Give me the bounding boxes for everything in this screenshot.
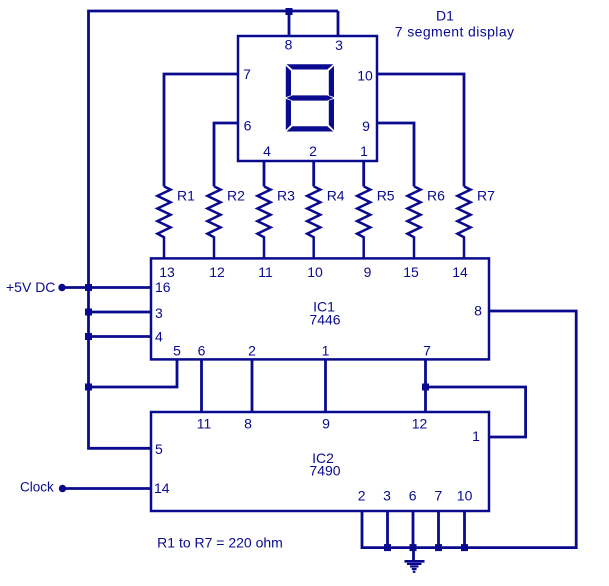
junction dot: rail / +5V wire: [85, 284, 92, 291]
svg-text:R1 to R7 = 220 ohm: R1 to R7 = 220 ohm: [157, 534, 283, 550]
wire: D1 pin 7 to R1 top: [164, 74, 238, 186]
svg-text:10: 10: [307, 264, 323, 280]
svg-text:R7: R7: [477, 188, 495, 204]
svg-text:14: 14: [154, 480, 170, 496]
resistor R2: [207, 186, 220, 258]
wire: IC1 pin 8 to ground bus (right side): [413, 311, 576, 548]
svg-text:13: 13: [159, 264, 175, 280]
svg-text:7490: 7490: [309, 463, 340, 479]
op IC1 7446 body: [151, 258, 489, 359]
svg-text:9: 9: [322, 415, 330, 431]
resistor R1: [157, 186, 170, 258]
svg-text:1: 1: [322, 342, 330, 358]
svg-text:1: 1: [360, 143, 368, 159]
wire: IC2 pin 7 to ground bus: [437, 511, 440, 548]
resistor R6: [407, 186, 420, 258]
svg-text:8: 8: [474, 302, 482, 318]
svg-text:R6: R6: [427, 188, 445, 204]
wire: drop from top rail to display pin 8: [288, 11, 291, 36]
svg-text:1: 1: [472, 428, 480, 444]
terminal dot: +5V DC: [58, 284, 65, 291]
svg-text:7446: 7446: [309, 312, 340, 328]
terminal dot: Clock: [59, 485, 66, 492]
wire: Clock to IC2 pin 14: [63, 487, 152, 490]
wire: +5V rail from display pin 3 over the top and down to IC2 pin 5: [89, 11, 339, 448]
svg-text:R4: R4: [327, 188, 345, 204]
resistor R3: [257, 186, 270, 258]
svg-text:16: 16: [155, 279, 171, 295]
wire: D1 pin 9 to R6 top: [377, 123, 414, 186]
wire: IC2 pin 3 to ground bus: [386, 511, 389, 548]
svg-text:15: 15: [403, 264, 419, 280]
svg-text:9: 9: [362, 118, 370, 134]
junction dot: pin 7 net branch: [422, 384, 429, 391]
svg-text:8: 8: [285, 36, 293, 52]
wire: D1 pin 1 to R5 top: [362, 161, 365, 186]
wire: drop from top rail to display pin 3: [337, 11, 340, 36]
svg-text:4: 4: [155, 329, 163, 345]
svg-text:D1: D1: [436, 7, 454, 23]
wire: rail to IC1 pin 3: [89, 311, 152, 314]
svg-text:9: 9: [364, 264, 372, 280]
svg-text:12: 12: [209, 264, 225, 280]
svg-text:2: 2: [309, 143, 317, 159]
junction dot: bus / pin 3: [384, 544, 391, 551]
svg-text:7 segment display: 7 segment display: [395, 23, 515, 39]
resistor R4: [307, 186, 320, 258]
wire: IC1 pin 5 to rail: [89, 359, 178, 387]
svg-text:4: 4: [263, 143, 271, 159]
wire: IC1 pin 2 to IC2 pin 8: [251, 359, 254, 412]
D1 7-segment digit glyph: [286, 64, 334, 131]
svg-text:11: 11: [258, 264, 273, 280]
junction dot: rail / pin 3 wire: [85, 309, 92, 316]
wire: D1 pin 10 to R7 top: [377, 74, 464, 186]
svg-text:3: 3: [155, 305, 163, 321]
counter IC2 7490 body: [151, 412, 489, 511]
svg-text:10: 10: [457, 487, 473, 503]
wire: pin 7 net to IC2 pin 1: [426, 387, 526, 437]
wire: IC2 pin 10 to ground bus: [463, 511, 466, 548]
svg-text:12: 12: [412, 415, 428, 431]
svg-text:7: 7: [243, 66, 251, 82]
svg-text:Clock: Clock: [20, 479, 54, 494]
svg-text:5: 5: [155, 441, 163, 457]
wire: IC2 pin 2 to ground bus: [362, 511, 413, 548]
wire: IC1 pin 6 to IC2 pin 11: [200, 359, 203, 412]
svg-text:2: 2: [248, 342, 256, 358]
junction dot: bus / pin 6: [410, 544, 417, 551]
wire: D1 pin 6 to R2 top: [214, 123, 238, 186]
svg-text:R5: R5: [377, 188, 395, 204]
junction dot: rail / pin 5 wire: [85, 384, 92, 391]
svg-text:6: 6: [244, 117, 252, 133]
svg-text:8: 8: [244, 415, 252, 431]
junction dot: rail / pin 4 wire: [85, 333, 92, 340]
svg-text:14: 14: [452, 264, 468, 280]
7-segment display D1 body: [238, 36, 377, 161]
svg-text:+5V DC: +5V DC: [6, 279, 55, 295]
ground: [405, 548, 425, 572]
wire: D1 pin 2 to R4 top: [312, 161, 315, 186]
wire: IC1 pin 7 to IC2 pin 12: [424, 359, 427, 412]
junction dot: bus / pin 10: [461, 544, 468, 551]
svg-text:7: 7: [435, 487, 443, 503]
svg-text:5: 5: [173, 342, 181, 358]
svg-text:2: 2: [358, 487, 366, 503]
svg-text:11: 11: [197, 415, 212, 431]
svg-text:10: 10: [357, 67, 373, 83]
wire: +5V DC to IC1 pin 16: [62, 286, 151, 289]
svg-text:R1: R1: [177, 188, 195, 204]
wire: IC1 pin 1 to IC2 pin 9: [324, 359, 327, 412]
svg-text:7: 7: [423, 342, 431, 358]
svg-text:R2: R2: [227, 188, 245, 204]
junction dot: bus / pin 7: [435, 544, 442, 551]
svg-text:R3: R3: [277, 188, 295, 204]
wire: D1 pin 4 to R3 top: [263, 161, 266, 186]
resistor R7: [457, 186, 470, 258]
svg-text:3: 3: [335, 37, 343, 53]
svg-text:6: 6: [198, 342, 206, 358]
resistor R5: [357, 186, 370, 258]
svg-text:3: 3: [383, 487, 391, 503]
svg-text:6: 6: [409, 487, 417, 503]
wire: rail to IC1 pin 4: [89, 335, 152, 338]
wire: IC2 pin 6 to ground bus: [412, 511, 415, 548]
junction dot: top rail / pin 8 drop: [286, 8, 293, 15]
